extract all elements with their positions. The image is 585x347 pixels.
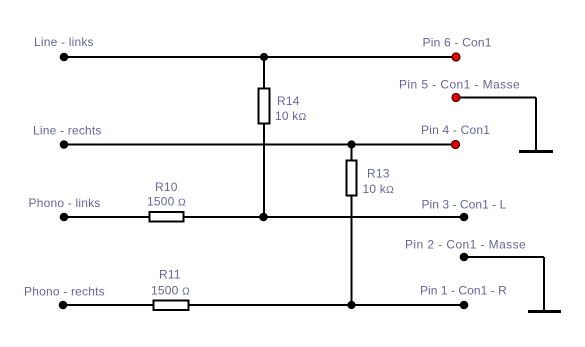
svg-text:Phono - links: Phono - links xyxy=(29,196,101,210)
svg-text:Line - rechts: Line - rechts xyxy=(33,124,102,138)
svg-text:R11: R11 xyxy=(159,268,181,282)
svg-text:Pin 1 - Con1 - R: Pin 1 - Con1 - R xyxy=(420,284,507,298)
svg-text:R10: R10 xyxy=(155,180,178,194)
svg-text:Phono - rechts: Phono - rechts xyxy=(24,285,105,299)
svg-text:Pin 5 - Con1 - Masse: Pin 5 - Con1 - Masse xyxy=(399,78,520,92)
svg-text:10 kΩ: 10 kΩ xyxy=(275,109,307,123)
svg-text:1500 Ω: 1500 Ω xyxy=(147,195,186,209)
svg-text:Pin 2 - Con1 - Masse: Pin 2 - Con1 - Masse xyxy=(405,238,526,252)
svg-text:Pin 6 - Con1: Pin 6 - Con1 xyxy=(423,36,492,50)
svg-text:R14: R14 xyxy=(277,94,300,108)
svg-text:Line - links: Line - links xyxy=(34,35,94,49)
svg-text:10 kΩ: 10 kΩ xyxy=(363,182,395,196)
svg-text:R13: R13 xyxy=(367,167,390,181)
svg-text:Pin 3 - Con1 - L: Pin 3 - Con1 - L xyxy=(422,197,507,211)
svg-text:1500 Ω: 1500 Ω xyxy=(151,284,190,298)
svg-text:Pin 4 - Con1: Pin 4 - Con1 xyxy=(421,123,490,137)
